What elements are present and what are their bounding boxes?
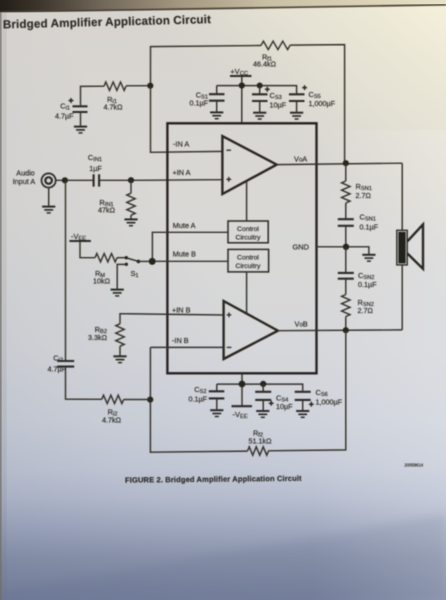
label CIN1 1uF: [88, 153, 102, 173]
ground under CS2: [210, 410, 223, 416]
ground under Ci1: [74, 127, 87, 133]
label RM 10k: [93, 269, 111, 286]
label CSN2 0.1uF: [358, 271, 377, 289]
faint bottom paper edge: [0, 514, 446, 600]
svg-text:Mute B: Mute B: [173, 250, 196, 259]
pin label VoA: [294, 155, 307, 164]
svg-text:46.4kΩ: 46.4kΩ: [253, 60, 277, 69]
capacitor CS6: [295, 392, 314, 410]
svg-text:Control: Control: [237, 226, 259, 233]
capacitor CS1: [209, 86, 225, 112]
svg-text:4.7kΩ: 4.7kΩ: [102, 416, 122, 425]
wire: +IN B to RB2: [120, 314, 224, 324]
svg-text:0.1µF: 0.1µF: [360, 223, 379, 232]
svg-text:20058614: 20058614: [405, 463, 424, 468]
svg-text:Circuitry: Circuitry: [236, 263, 262, 270]
ground under CS4: [256, 411, 269, 417]
resistor RM: [95, 254, 125, 262]
svg-text:10kΩ: 10kΩ: [93, 277, 111, 286]
capacitor CS2: [209, 384, 225, 409]
label S1: [130, 269, 138, 279]
label Ri1 4.7k: [104, 95, 124, 112]
wire: -IN B to Ri2 node and Rf2 rail: [150, 347, 223, 453]
wire: Ri2 to node: [66, 367, 151, 400]
node: CS3 junction: [257, 83, 263, 89]
svg-text:10µF: 10µF: [276, 402, 293, 411]
svg-text:Input A: Input A: [13, 177, 36, 186]
wire: Rf2 bottom rail: [150, 330, 345, 452]
ground under CS6: [296, 411, 309, 417]
dark table edge band above page: [0, 0, 446, 12]
label RSN2 2.7: [358, 298, 374, 315]
capacitor CIN1: [94, 174, 100, 186]
wire: op-amp A output VoA: [277, 163, 403, 164]
resistor RSN2: [342, 295, 350, 330]
node: VEE junction: [239, 381, 246, 388]
svg-text:0.1µF: 0.1µF: [358, 280, 377, 289]
svg-text:4.7µF: 4.7µF: [55, 111, 74, 120]
left photo edge: [0, 0, 2, 600]
svg-text:10µF: 10µF: [270, 101, 287, 110]
wire: switch lower contact to ground: [117, 264, 126, 288]
svg-text:4.7kΩ: 4.7kΩ: [104, 103, 124, 112]
power +VCC: [230, 67, 252, 77]
page top edge line: [0, 5, 446, 12]
wire: -IN A into op-amp U1A: [151, 86, 223, 153]
capacitor CS3: [252, 86, 270, 112]
label Audio Input A: [13, 169, 36, 187]
node: +IN A junction: [128, 177, 134, 183]
capacitor Ci1: [69, 98, 88, 126]
label CSN1 0.1uF: [360, 213, 379, 232]
IC package box U1: [167, 123, 316, 373]
node: CS4 junction: [260, 381, 266, 387]
svg-text:FIGURE 2. Bridged Amplifier Ap: FIGURE 2. Bridged Amplifier Application …: [125, 474, 302, 485]
node: GND junction: [343, 244, 349, 250]
power -VEE bottom: [232, 406, 253, 420]
label CS6 1000uF: [316, 388, 343, 407]
wire: Ri1 to -IN A node: [81, 86, 151, 106]
power -VEE at switch: [69, 232, 91, 242]
capacitor Ci2: [57, 180, 74, 366]
wire: VEE to RM: [80, 241, 95, 258]
resistor RSN1: [342, 163, 350, 219]
node: VoA snubber junction: [343, 160, 349, 166]
wire: top feedback rail from -IN A node to VoA node: [151, 45, 345, 164]
svg-text:2.7Ω: 2.7Ω: [356, 191, 372, 200]
wire: CIN1 to +IN A: [99, 179, 222, 182]
wire: GND pin to ground: [317, 247, 369, 254]
connector: Audio Input A jack: [42, 173, 56, 187]
node: -IN A junction: [147, 83, 153, 89]
label CS2 0.1uF: [188, 385, 207, 404]
resistor RIN1: [127, 180, 135, 218]
label Ri2 4.7k: [102, 408, 122, 425]
node: VoB snubber junction: [343, 327, 349, 333]
wire: jack to CIN1: [56, 179, 94, 181]
ground under RB2: [113, 356, 126, 362]
capacitor CS5: [289, 85, 307, 112]
svg-text:1,000µF: 1,000µF: [309, 99, 336, 108]
wire: speaker drops: [401, 163, 403, 330]
wire: Mute A: [152, 232, 228, 261]
ground under switch: [111, 290, 124, 296]
svg-text:1,000µF: 1,000µF: [316, 398, 343, 407]
capacitor CSN2: [338, 247, 354, 295]
resistor Rf2: [248, 447, 269, 455]
label CS3 10uF: [270, 91, 287, 110]
node: input junction: [62, 177, 68, 183]
wire: supply cap rail top: [217, 86, 297, 94]
label Ci1 4.7uF: [55, 102, 74, 121]
label CS5 1000uF: [309, 90, 336, 108]
label CS4 10uF: [276, 394, 293, 412]
ground under CS3: [253, 113, 266, 119]
svg-text:47kΩ: 47kΩ: [98, 206, 116, 215]
node: mute junction: [149, 258, 156, 265]
label RB2 3.3k: [88, 325, 108, 342]
capacitor CSN1: [338, 219, 354, 247]
resistor Ri1: [104, 82, 126, 90]
svg-text:2.7Ω: 2.7Ω: [358, 306, 374, 315]
label Ci2 4.7uF: [47, 354, 66, 374]
capacitor CS4: [255, 384, 273, 410]
label CS1 0.1uF: [189, 91, 208, 108]
svg-text:0.1µF: 0.1µF: [189, 99, 208, 108]
ground under RIN1: [124, 219, 137, 225]
wire: IC bottom to VEE: [241, 373, 243, 406]
wire: bottom cap rail: [217, 384, 303, 391]
ground under CS5: [290, 113, 303, 119]
ground under CS1: [210, 112, 223, 118]
svg-text:+IN A: +IN A: [173, 168, 191, 177]
svg-text:0.1µF: 0.1µF: [188, 395, 207, 404]
resistor Ri2: [102, 395, 124, 403]
svg-text:-IN A: -IN A: [173, 140, 189, 149]
wire: VCC vertical into IC top: [241, 76, 243, 123]
svg-text:Circuitry: Circuitry: [236, 235, 262, 242]
switch S1: [125, 256, 149, 266]
resistor RB2: [116, 324, 124, 356]
svg-text:Control: Control: [237, 255, 259, 262]
svg-text:-IN B: -IN B: [172, 336, 189, 345]
svg-text:GND: GND: [293, 243, 309, 252]
label RIN1 47k: [98, 198, 116, 215]
ground under jack: [42, 187, 55, 213]
label Rf1 46.4k: [253, 53, 277, 69]
op-amp U1A: [222, 136, 276, 194]
label RSN1 2.7: [356, 182, 372, 200]
node: -IN B junction: [147, 397, 153, 403]
control circuitry box B: [228, 249, 269, 272]
svg-text:3.3kΩ: 3.3kΩ: [88, 333, 108, 342]
ground at GND pin: [362, 255, 375, 261]
label Rf2 51.1k: [249, 429, 273, 446]
svg-text:4.7µF: 4.7µF: [47, 365, 66, 374]
svg-text:+IN B: +IN B: [172, 306, 191, 315]
control circuitry box A: [228, 221, 268, 243]
op-amp U1B: [224, 301, 278, 359]
wire: op-amp B output VoB: [278, 329, 402, 332]
wire: control B to op-amp B: [246, 272, 248, 313]
resistor Rf1: [261, 41, 290, 49]
svg-text:Mute A: Mute A: [173, 221, 196, 230]
wire: op-amp A to control A: [246, 181, 248, 221]
svg-text:51.1kΩ: 51.1kΩ: [249, 437, 273, 446]
pin label VoB: [295, 320, 308, 329]
wire: Mute B: [152, 260, 228, 262]
speaker: [397, 224, 423, 268]
node: VCC junction: [239, 82, 245, 88]
svg-text:1µF: 1µF: [89, 164, 102, 173]
